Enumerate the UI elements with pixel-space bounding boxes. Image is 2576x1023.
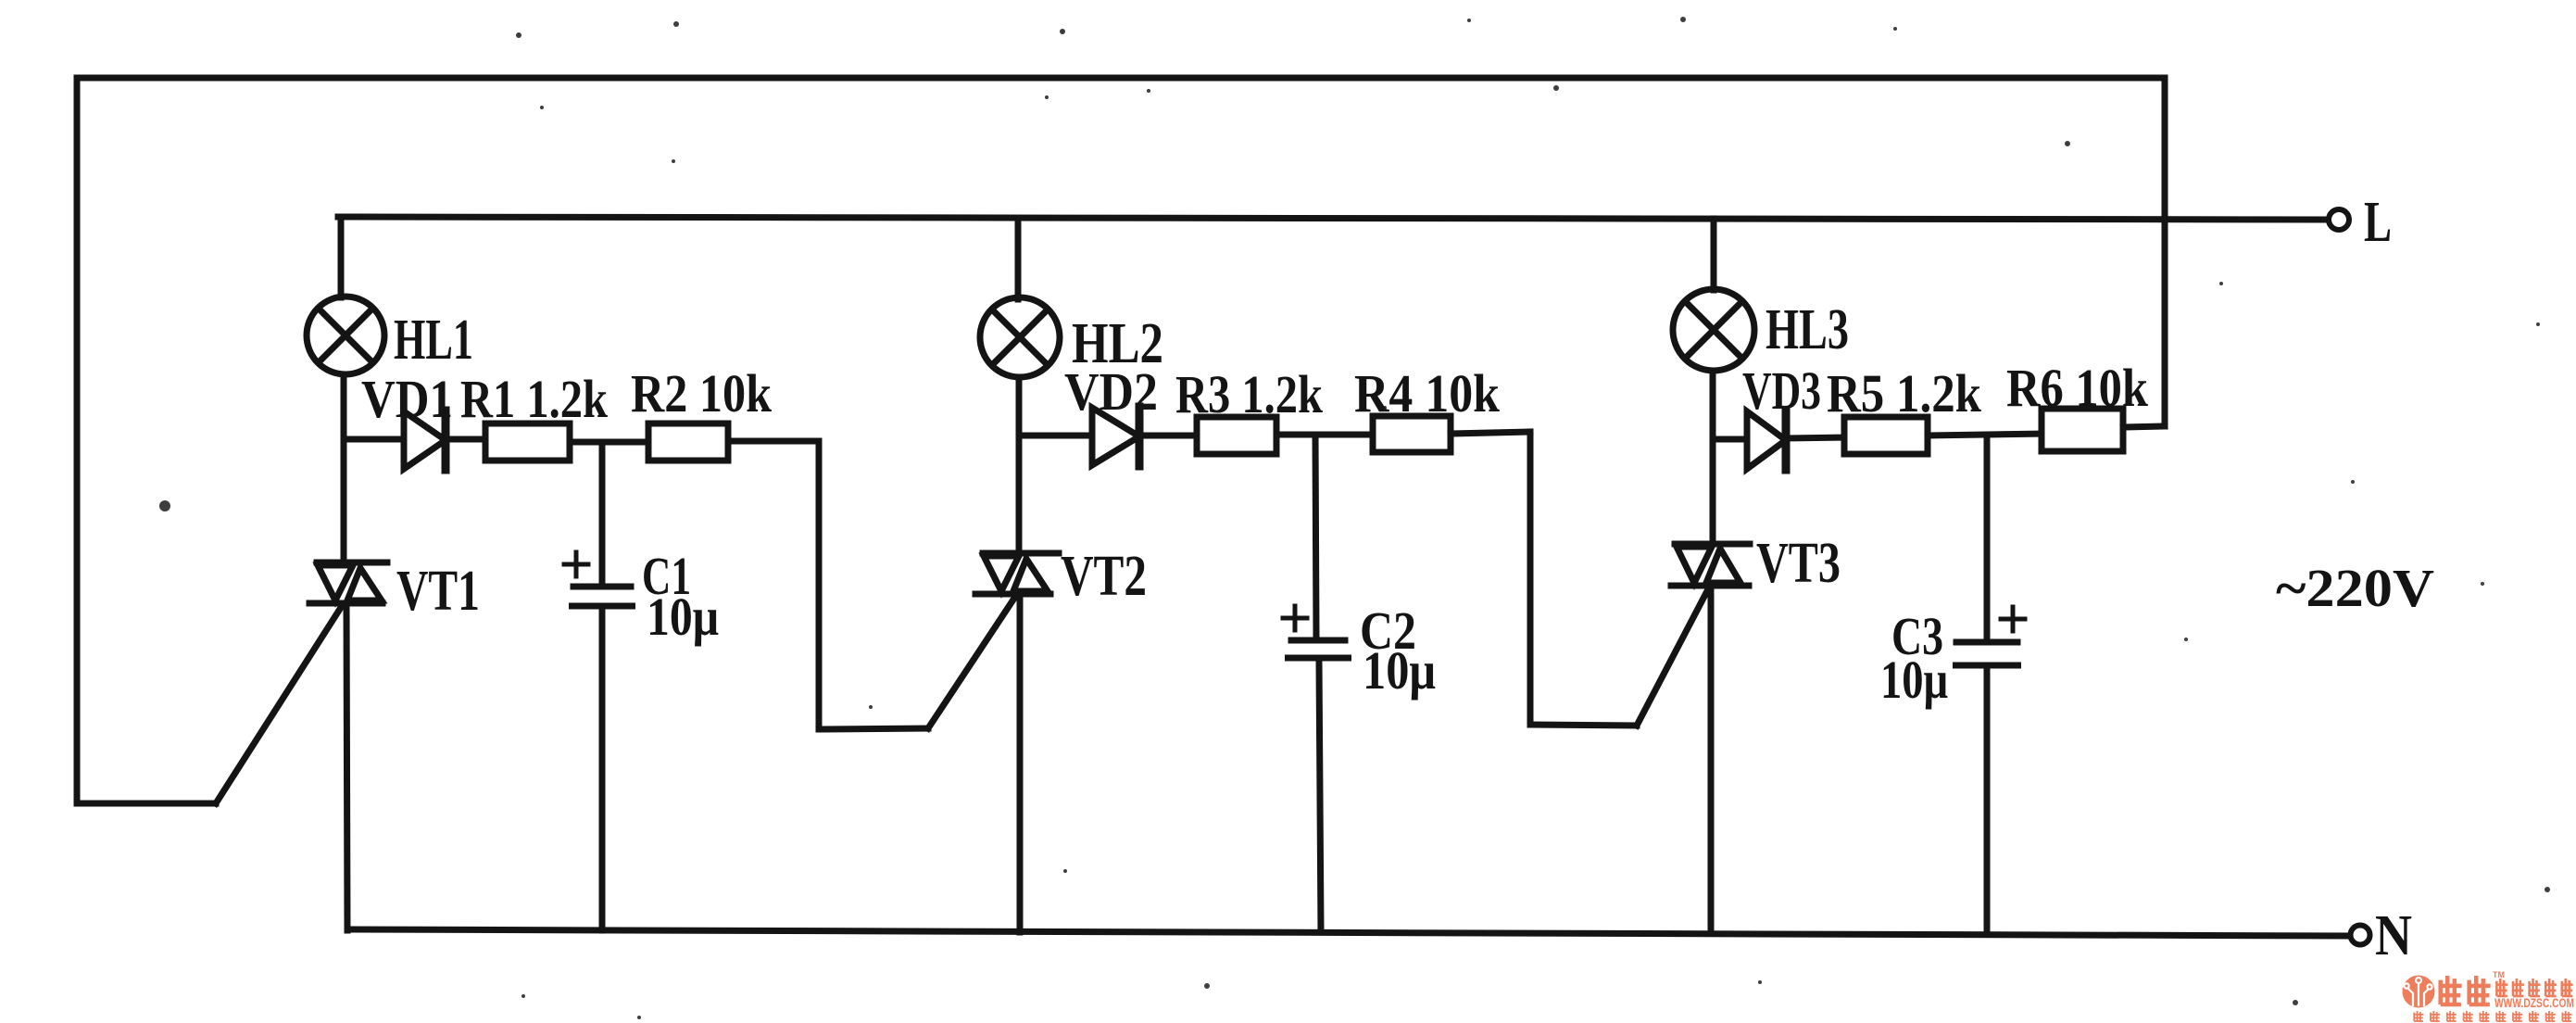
label C1 xyxy=(642,546,691,606)
svg-text:~220V: ~220V xyxy=(2276,558,2434,618)
wire node stage2 to diode VD2 xyxy=(1019,433,1092,439)
watermark logo circle (维库) xyxy=(2403,976,2435,1008)
wire L supply rail xyxy=(338,217,2329,220)
wire lamp HL2 to triac VT2 anode xyxy=(1016,377,1023,553)
svg-text:R5 1.2k: R5 1.2k xyxy=(1827,363,1982,423)
polarity + of C1 xyxy=(564,552,588,576)
svg-text:VD2: VD2 xyxy=(1064,361,1158,422)
resistor R1 xyxy=(485,423,570,461)
lamp HL3 xyxy=(1673,289,1754,371)
svg-text:R3 1.2k: R3 1.2k xyxy=(1175,364,1324,424)
watermark text 专业电子元器件交易网站 xyxy=(2414,1011,2572,1021)
wire VD3 to R5 xyxy=(1786,437,1846,438)
wire stub to VT3 gate xyxy=(1530,725,1637,726)
wire R4 output right xyxy=(1451,432,1530,434)
triac VT3 xyxy=(1671,544,1750,586)
label C1 value 10µ xyxy=(647,587,719,647)
resistor R6 xyxy=(2042,409,2123,451)
label C3 xyxy=(1891,606,1943,666)
diode VD2 xyxy=(1092,407,1139,466)
wire C2 to N rail xyxy=(1319,661,1321,932)
label HL1 xyxy=(394,309,473,372)
resistor R5 xyxy=(1844,417,1928,454)
label R6 10k xyxy=(2006,358,2149,418)
label VD2 xyxy=(1064,361,1158,422)
svg-text:HL1: HL1 xyxy=(394,309,473,372)
watermark www.dzsc.com xyxy=(2494,996,2574,1010)
polarity + of C3 xyxy=(2001,607,2025,631)
svg-text:10μ: 10μ xyxy=(1880,650,1948,710)
watermark text 维库 xyxy=(2439,976,2490,1004)
svg-text:10μ: 10μ xyxy=(647,587,719,647)
svg-text:VT3: VT3 xyxy=(1756,532,1841,595)
wire gate diagonal into triac VT1 xyxy=(216,606,342,803)
label ~220V mains xyxy=(2276,558,2434,618)
label VT1 xyxy=(396,560,480,623)
wire lamp HL3 to triac VT3 anode xyxy=(1710,371,1716,544)
svg-text:VD1: VD1 xyxy=(361,369,453,429)
capacitor C1 (electrolytic) xyxy=(572,587,633,606)
svg-text:R4 10k: R4 10k xyxy=(1354,363,1501,423)
label R2 10k xyxy=(631,363,773,423)
polarity + of C2 xyxy=(1283,606,1307,630)
svg-text:WWW.DZSC.COM: WWW.DZSC.COM xyxy=(2494,996,2574,1010)
svg-text:R1 1.2k: R1 1.2k xyxy=(460,369,609,429)
wire R6 output to right drop xyxy=(2123,426,2165,427)
watermark TM xyxy=(2493,970,2505,979)
label HL3 xyxy=(1766,298,1849,361)
wire R5 to R6 (node A3) xyxy=(1928,434,2043,436)
wire node stage1 to diode VD1 xyxy=(344,436,404,443)
label HL2 xyxy=(1072,312,1163,375)
label R1 1.2k xyxy=(460,369,609,429)
wire C1 to N rail xyxy=(599,609,606,930)
wire junction A3 down to C3 xyxy=(1984,435,1991,639)
capacitor C2 (electrolytic) xyxy=(1288,640,1349,658)
label R3 1.2k xyxy=(1175,364,1324,424)
wire gate diagonal into triac VT3 xyxy=(1637,587,1709,726)
watermark text 电子市场网 xyxy=(2496,979,2573,996)
wire lamp HL1 to triac VT1 anode xyxy=(341,374,347,562)
svg-text:10μ: 10μ xyxy=(1363,640,1436,701)
svg-text:VT2: VT2 xyxy=(1061,545,1147,608)
svg-text:R6 10k: R6 10k xyxy=(2006,358,2149,418)
resistor R4 xyxy=(1373,416,1451,452)
wire L-rail tap to lamp HL3 xyxy=(1711,219,1717,290)
wire C3 to N rail xyxy=(1984,668,1991,934)
wire VT1 cathode to N rail xyxy=(346,603,347,930)
wire R1 to R2 (node A1) xyxy=(570,439,650,446)
label VT2 xyxy=(1061,545,1147,608)
wire R3 to R4 (node A2) xyxy=(1276,432,1375,438)
wire right drop from top rail to R6 output xyxy=(2162,78,2168,426)
lamp HL2 xyxy=(980,297,1060,377)
label R4 10k xyxy=(1354,363,1501,423)
wire N supply rail xyxy=(349,929,2350,936)
wire R2 output right xyxy=(728,438,819,445)
wire top feedback rail (R6 to VT1 gate loop, top border) xyxy=(77,75,2165,82)
lamp HL1 xyxy=(307,297,384,374)
wire R2 output down xyxy=(816,441,823,729)
label VD3 xyxy=(1742,360,1821,421)
wire R4 output down xyxy=(1527,432,1534,725)
svg-text:L: L xyxy=(2364,191,2392,254)
wire bottom-left stub to VT1 gate xyxy=(77,801,216,807)
wire junction A1 down to C1 xyxy=(599,442,606,585)
wire junction A2 down to C2 xyxy=(1315,435,1316,638)
label VT3 xyxy=(1756,532,1841,595)
triac VT1 xyxy=(309,562,387,603)
wire gate diagonal into triac VT2 xyxy=(928,597,1015,728)
terminal N (open circle) xyxy=(2351,926,2370,945)
label C2 xyxy=(1360,600,1416,661)
wire VD1 to R1 xyxy=(446,436,487,443)
diode VD1 xyxy=(404,410,446,470)
label N xyxy=(2375,904,2412,967)
svg-text:HL3: HL3 xyxy=(1766,298,1849,361)
label C2 value 10µ xyxy=(1363,640,1436,701)
label C3 value 10µ xyxy=(1880,650,1948,710)
svg-text:VD3: VD3 xyxy=(1742,360,1821,421)
wire VT3 cathode to N rail xyxy=(1708,586,1715,933)
svg-text:VT1: VT1 xyxy=(396,560,480,623)
resistor R2 xyxy=(648,423,728,461)
wire VT2 cathode to N rail xyxy=(1017,594,1024,932)
wire VD2 to R3 xyxy=(1139,433,1199,439)
label L xyxy=(2364,191,2392,254)
svg-text:TM: TM xyxy=(2493,970,2505,979)
wire node stage3 to diode VD3 xyxy=(1713,436,1747,443)
wire stub to VT2 gate xyxy=(819,728,928,729)
wire left border down from top rail xyxy=(74,78,81,803)
wire L-rail tap to lamp HL1 xyxy=(338,217,345,297)
label R5 1.2k xyxy=(1827,363,1982,423)
terminal L (open circle) xyxy=(2329,209,2349,230)
triac VT2 xyxy=(975,553,1059,594)
svg-text:N: N xyxy=(2375,904,2412,967)
capacitor C3 (electrolytic) xyxy=(1956,642,2018,665)
resistor R3 xyxy=(1197,417,1276,454)
diode VD3 xyxy=(1747,410,1786,470)
svg-text:R2 10k: R2 10k xyxy=(631,363,773,423)
wire L-rail tap to lamp HL2 xyxy=(1015,219,1022,299)
label VD1 xyxy=(361,369,453,429)
